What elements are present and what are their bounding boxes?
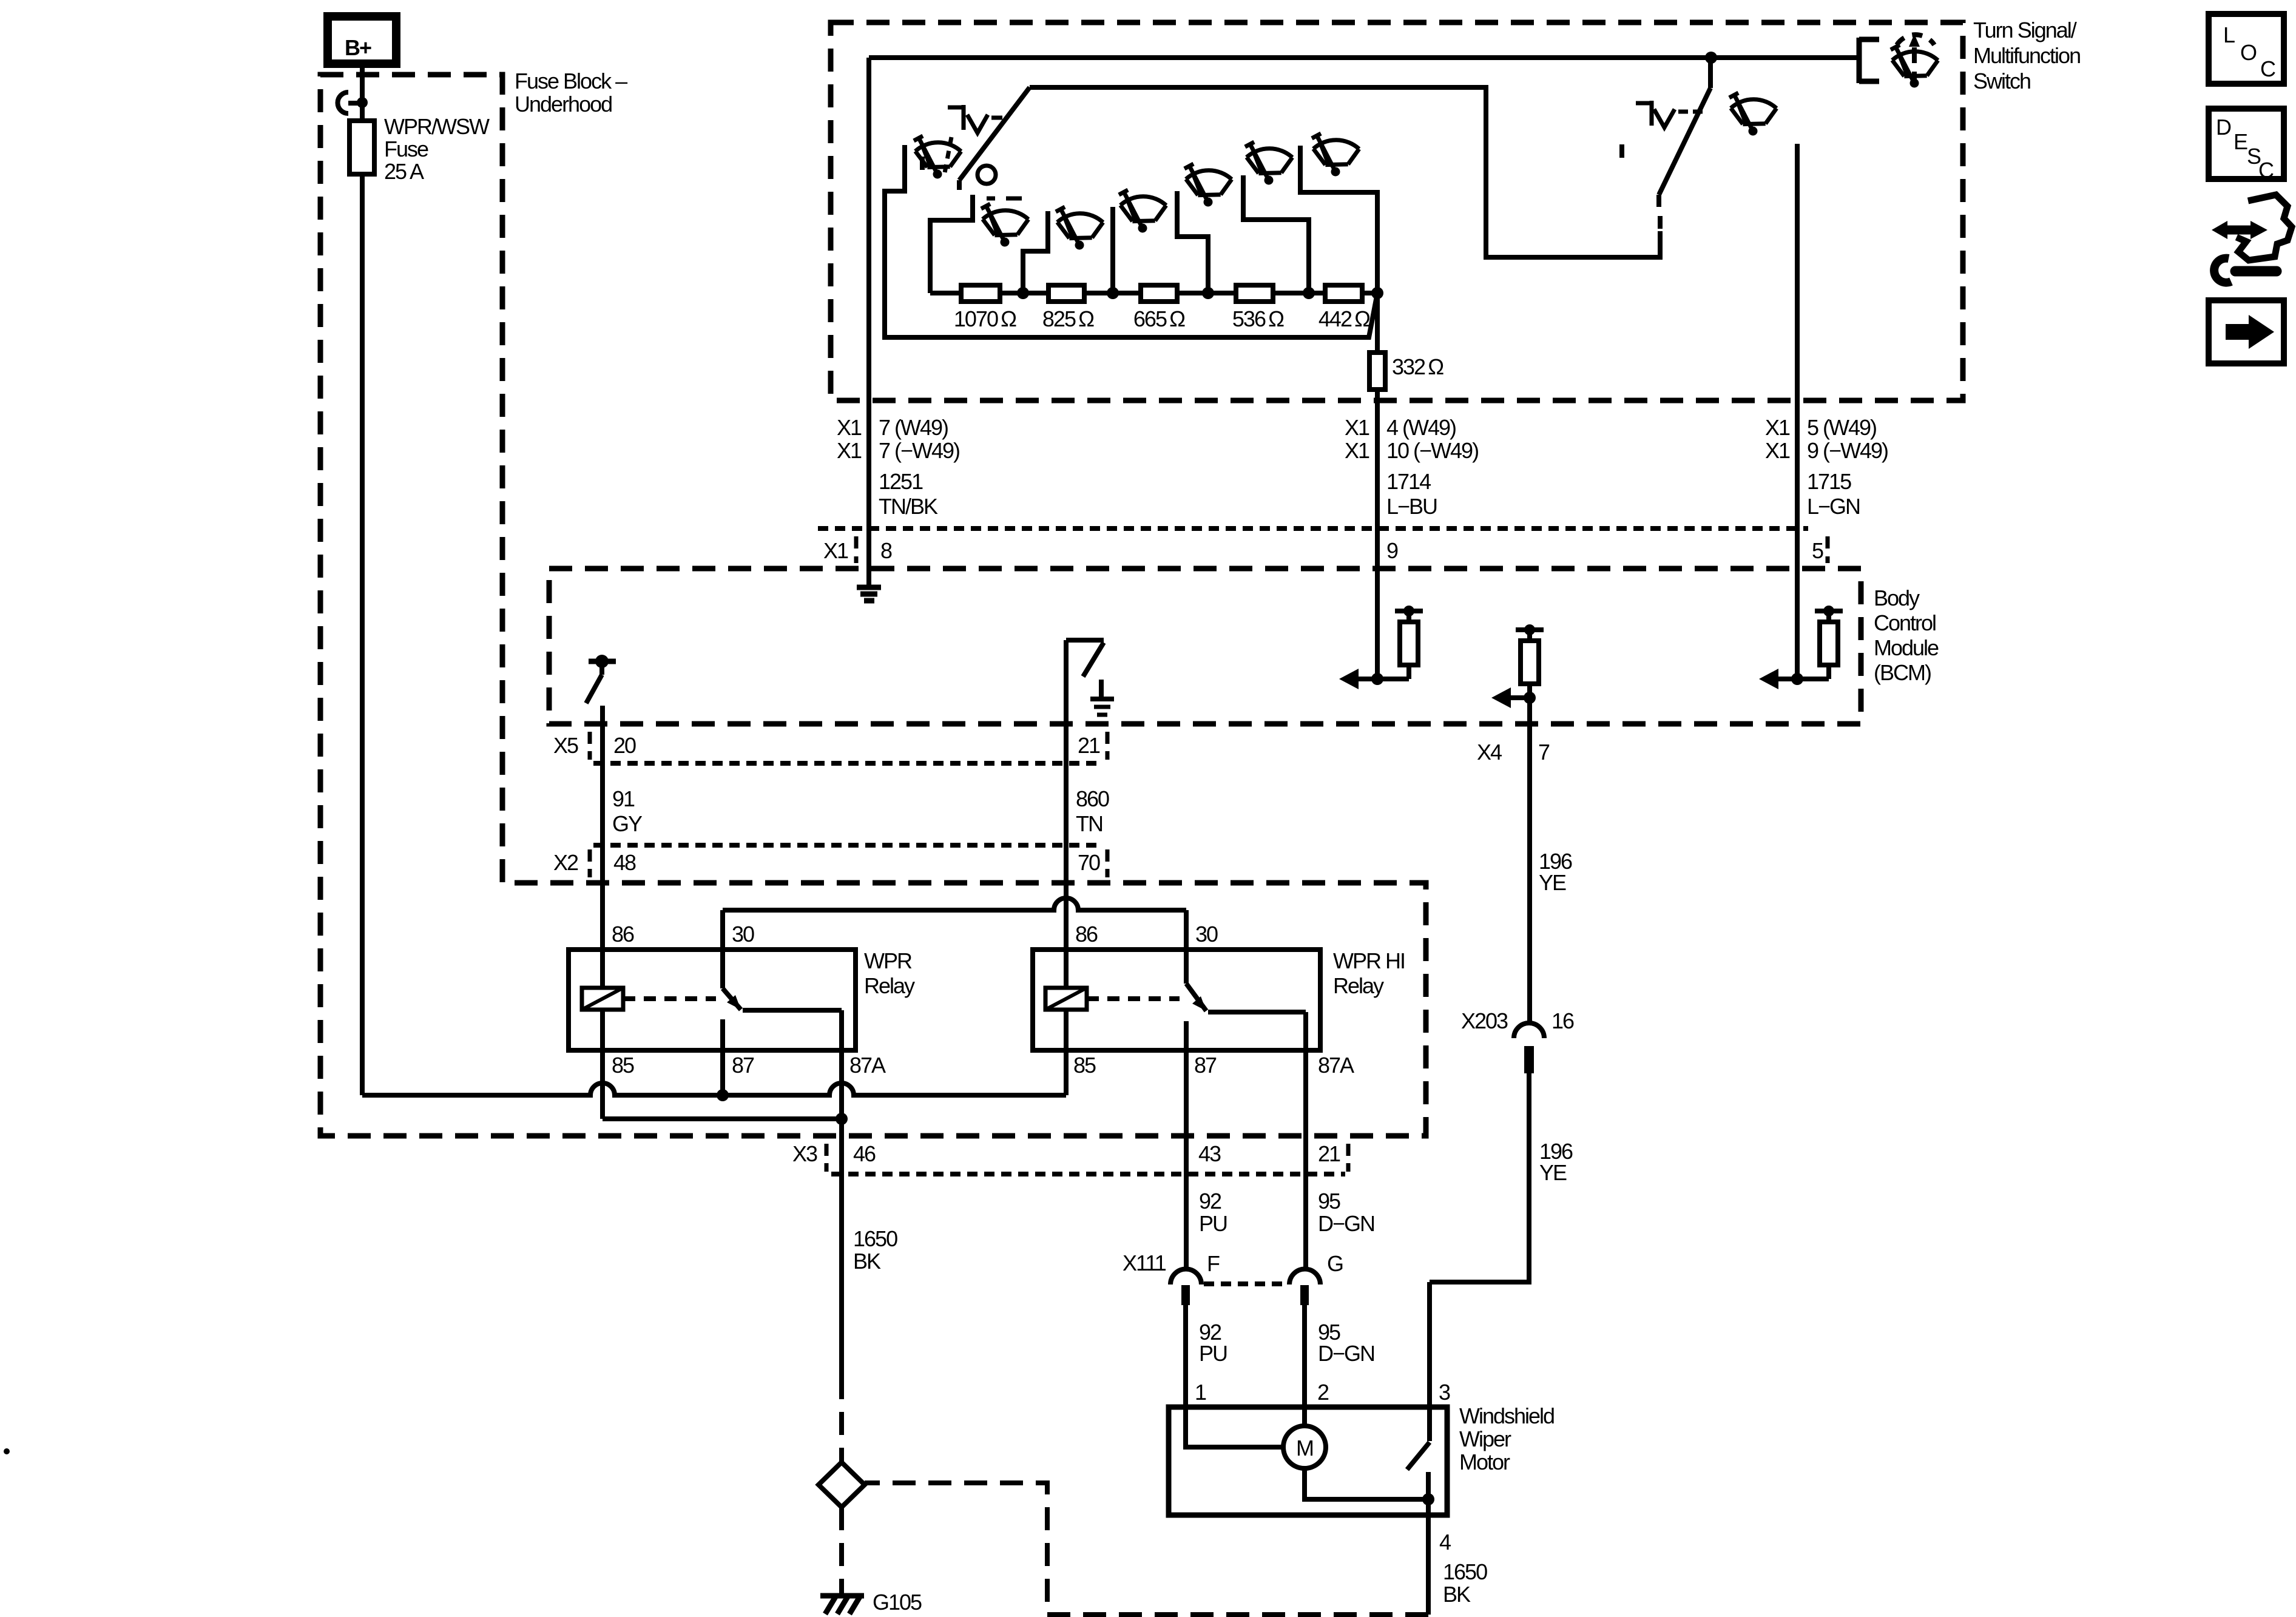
- svg-text:87: 87: [732, 1053, 754, 1078]
- svg-text:9 (−W49): 9 (−W49): [1807, 438, 1888, 463]
- svg-text:X1: X1: [1765, 438, 1790, 463]
- svg-text:X1: X1: [837, 415, 862, 440]
- svg-text:Wiper: Wiper: [1459, 1426, 1511, 1451]
- svg-text:4 (W49): 4 (W49): [1386, 415, 1456, 440]
- svg-text:BK: BK: [853, 1249, 881, 1274]
- svg-text:1070 Ω: 1070 Ω: [954, 306, 1016, 331]
- svg-text:X1: X1: [823, 538, 848, 563]
- svg-text:Fuse Block –: Fuse Block –: [515, 69, 627, 93]
- svg-text:WPR HI: WPR HI: [1333, 948, 1405, 973]
- svg-text:X1: X1: [1345, 438, 1369, 463]
- svg-text:X1: X1: [837, 438, 862, 463]
- svg-text:D−GN: D−GN: [1318, 1341, 1374, 1366]
- svg-text:87A: 87A: [849, 1053, 886, 1078]
- svg-text:X2: X2: [553, 850, 578, 875]
- svg-text:L: L: [2223, 22, 2235, 47]
- svg-text:Relay: Relay: [864, 973, 915, 998]
- svg-text:25 A: 25 A: [384, 159, 424, 184]
- svg-text:7 (W49): 7 (W49): [879, 415, 948, 440]
- svg-text:O: O: [2240, 40, 2257, 65]
- svg-text:Body: Body: [1874, 586, 1920, 610]
- svg-text:X4: X4: [1477, 740, 1502, 765]
- svg-text:16: 16: [1551, 1008, 1574, 1033]
- svg-text:442 Ω: 442 Ω: [1319, 306, 1370, 331]
- svg-text:1650: 1650: [1443, 1559, 1487, 1584]
- svg-text:10 (−W49): 10 (−W49): [1386, 438, 1478, 463]
- svg-text:30: 30: [732, 922, 754, 947]
- svg-text:GY: GY: [612, 811, 643, 836]
- svg-text:X1: X1: [1765, 415, 1790, 440]
- svg-text:1650: 1650: [853, 1226, 897, 1251]
- svg-text:Control: Control: [1874, 610, 1936, 635]
- svg-text:F: F: [1207, 1251, 1220, 1276]
- svg-text:X1: X1: [1345, 415, 1369, 440]
- svg-text:1715: 1715: [1807, 469, 1851, 494]
- svg-text:YE: YE: [1539, 870, 1566, 895]
- svg-text:E: E: [2234, 129, 2247, 154]
- svg-text:825 Ω: 825 Ω: [1042, 306, 1094, 331]
- svg-text:(BCM): (BCM): [1874, 660, 1931, 685]
- svg-text:86: 86: [1075, 922, 1098, 947]
- svg-text:332 Ω: 332 Ω: [1392, 354, 1443, 379]
- svg-text:PU: PU: [1199, 1341, 1227, 1366]
- svg-text:86: 86: [612, 922, 634, 947]
- svg-text:8: 8: [880, 538, 892, 563]
- svg-text:21: 21: [1078, 733, 1100, 758]
- svg-text:YE: YE: [1539, 1160, 1567, 1185]
- svg-text:D: D: [2216, 115, 2231, 140]
- svg-text:48: 48: [613, 850, 636, 875]
- svg-text:Relay: Relay: [1333, 973, 1384, 998]
- svg-text:Fuse: Fuse: [384, 137, 428, 161]
- svg-text:D−GN: D−GN: [1318, 1211, 1374, 1236]
- svg-text:85: 85: [1073, 1053, 1096, 1078]
- svg-text:92: 92: [1199, 1189, 1221, 1214]
- svg-text:1: 1: [1195, 1380, 1206, 1405]
- svg-text:X203: X203: [1461, 1008, 1508, 1033]
- svg-text:WPR/WSW: WPR/WSW: [384, 114, 490, 139]
- svg-text:Multifunction: Multifunction: [1973, 43, 2080, 68]
- svg-text:TN: TN: [1076, 811, 1102, 836]
- svg-text:20: 20: [613, 733, 636, 758]
- svg-text:Turn Signal/: Turn Signal/: [1973, 18, 2077, 42]
- svg-text:665 Ω: 665 Ω: [1133, 306, 1185, 331]
- svg-text:9: 9: [1386, 538, 1398, 563]
- svg-text:2: 2: [1317, 1380, 1329, 1405]
- svg-text:860: 860: [1076, 786, 1109, 811]
- svg-text:1714: 1714: [1386, 469, 1431, 494]
- svg-text:L−GN: L−GN: [1807, 494, 1860, 519]
- svg-text:5: 5: [1812, 538, 1823, 563]
- svg-text:B+: B+: [345, 35, 371, 60]
- svg-text:X111: X111: [1123, 1251, 1166, 1275]
- svg-text:95: 95: [1318, 1189, 1340, 1214]
- svg-text:Windshield: Windshield: [1459, 1403, 1554, 1428]
- svg-text:30: 30: [1195, 922, 1218, 947]
- svg-text:Motor: Motor: [1459, 1450, 1510, 1474]
- svg-text:Underhood: Underhood: [515, 92, 612, 116]
- svg-text:7: 7: [1538, 740, 1550, 765]
- svg-text:46: 46: [853, 1141, 876, 1166]
- svg-text:G105: G105: [873, 1590, 922, 1615]
- svg-text:536 Ω: 536 Ω: [1232, 306, 1284, 331]
- svg-text:43: 43: [1198, 1141, 1221, 1166]
- svg-text:C: C: [2258, 158, 2274, 183]
- svg-text:85: 85: [612, 1053, 634, 1078]
- svg-text:1251: 1251: [879, 469, 923, 494]
- svg-text:70: 70: [1078, 850, 1100, 875]
- svg-text:TN/BK: TN/BK: [879, 494, 938, 519]
- svg-text:L−BU: L−BU: [1386, 494, 1437, 519]
- svg-text:87A: 87A: [1318, 1053, 1354, 1078]
- svg-text:C: C: [2260, 56, 2275, 81]
- svg-text:PU: PU: [1199, 1211, 1227, 1236]
- svg-text:BK: BK: [1443, 1582, 1471, 1607]
- svg-text:87: 87: [1194, 1053, 1217, 1078]
- svg-text:4: 4: [1439, 1530, 1451, 1555]
- svg-text:WPR: WPR: [864, 948, 912, 973]
- svg-text:G: G: [1327, 1251, 1343, 1276]
- svg-text:3: 3: [1439, 1380, 1450, 1405]
- svg-text:M: M: [1296, 1436, 1313, 1460]
- svg-text:X3: X3: [792, 1141, 817, 1166]
- svg-text:Module: Module: [1874, 635, 1939, 660]
- svg-text:21: 21: [1318, 1141, 1340, 1166]
- svg-text:Switch: Switch: [1973, 69, 2030, 93]
- svg-text:5 (W49): 5 (W49): [1807, 415, 1876, 440]
- svg-text:7 (−W49): 7 (−W49): [879, 438, 959, 463]
- svg-text:X5: X5: [553, 733, 578, 758]
- svg-text:91: 91: [612, 786, 635, 811]
